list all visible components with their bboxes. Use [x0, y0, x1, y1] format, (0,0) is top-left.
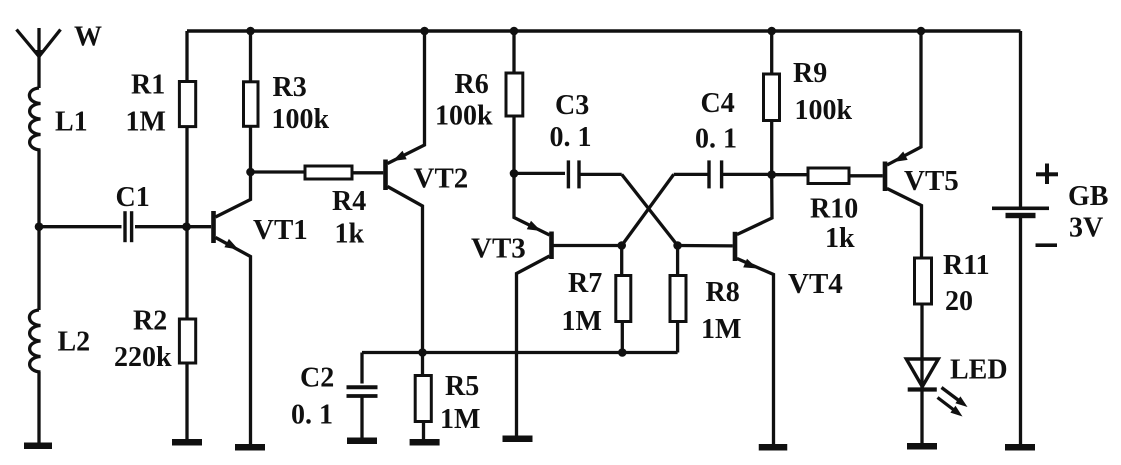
svg-text:100k: 100k [795, 95, 853, 126]
svg-text:1M: 1M [701, 314, 741, 345]
svg-text:L1: L1 [55, 107, 88, 138]
svg-text:R1: R1 [131, 70, 165, 101]
svg-text:GB: GB [1068, 181, 1108, 212]
svg-text:R10: R10 [810, 194, 858, 225]
svg-text:R6: R6 [455, 69, 489, 100]
svg-text:0. 1: 0. 1 [291, 400, 333, 431]
svg-text:LED: LED [950, 355, 1008, 386]
svg-text:1M: 1M [126, 107, 166, 138]
svg-text:220k: 220k [114, 342, 172, 373]
svg-text:C3: C3 [555, 90, 589, 121]
svg-text:VT3: VT3 [471, 233, 526, 265]
svg-text:100k: 100k [435, 101, 493, 132]
svg-text:1M: 1M [562, 306, 602, 337]
svg-text:L2: L2 [58, 327, 91, 358]
svg-text:R2: R2 [133, 306, 167, 337]
svg-text:VT1: VT1 [253, 214, 308, 246]
svg-text:R3: R3 [273, 72, 307, 103]
svg-text:C2: C2 [300, 363, 334, 394]
svg-text:100k: 100k [272, 104, 330, 135]
svg-text:20: 20 [945, 286, 973, 317]
svg-text:C1: C1 [116, 182, 150, 213]
svg-text:R9: R9 [793, 58, 827, 89]
svg-text:W: W [74, 22, 102, 53]
svg-text:3V: 3V [1069, 213, 1103, 244]
svg-text:R7: R7 [568, 268, 602, 299]
svg-text:C4: C4 [701, 88, 735, 119]
svg-text:1M: 1M [440, 404, 480, 435]
svg-text:0. 1: 0. 1 [550, 122, 592, 153]
svg-text:0. 1: 0. 1 [695, 124, 737, 155]
svg-text:VT2: VT2 [414, 163, 469, 195]
svg-text:1k: 1k [825, 223, 855, 254]
svg-text:R5: R5 [445, 371, 479, 402]
svg-text:R4: R4 [332, 186, 366, 217]
svg-text:VT5: VT5 [904, 165, 959, 197]
svg-text:VT4: VT4 [788, 268, 843, 300]
svg-text:R11: R11 [943, 250, 990, 281]
svg-text:1k: 1k [335, 219, 365, 250]
svg-text:R8: R8 [706, 277, 740, 308]
